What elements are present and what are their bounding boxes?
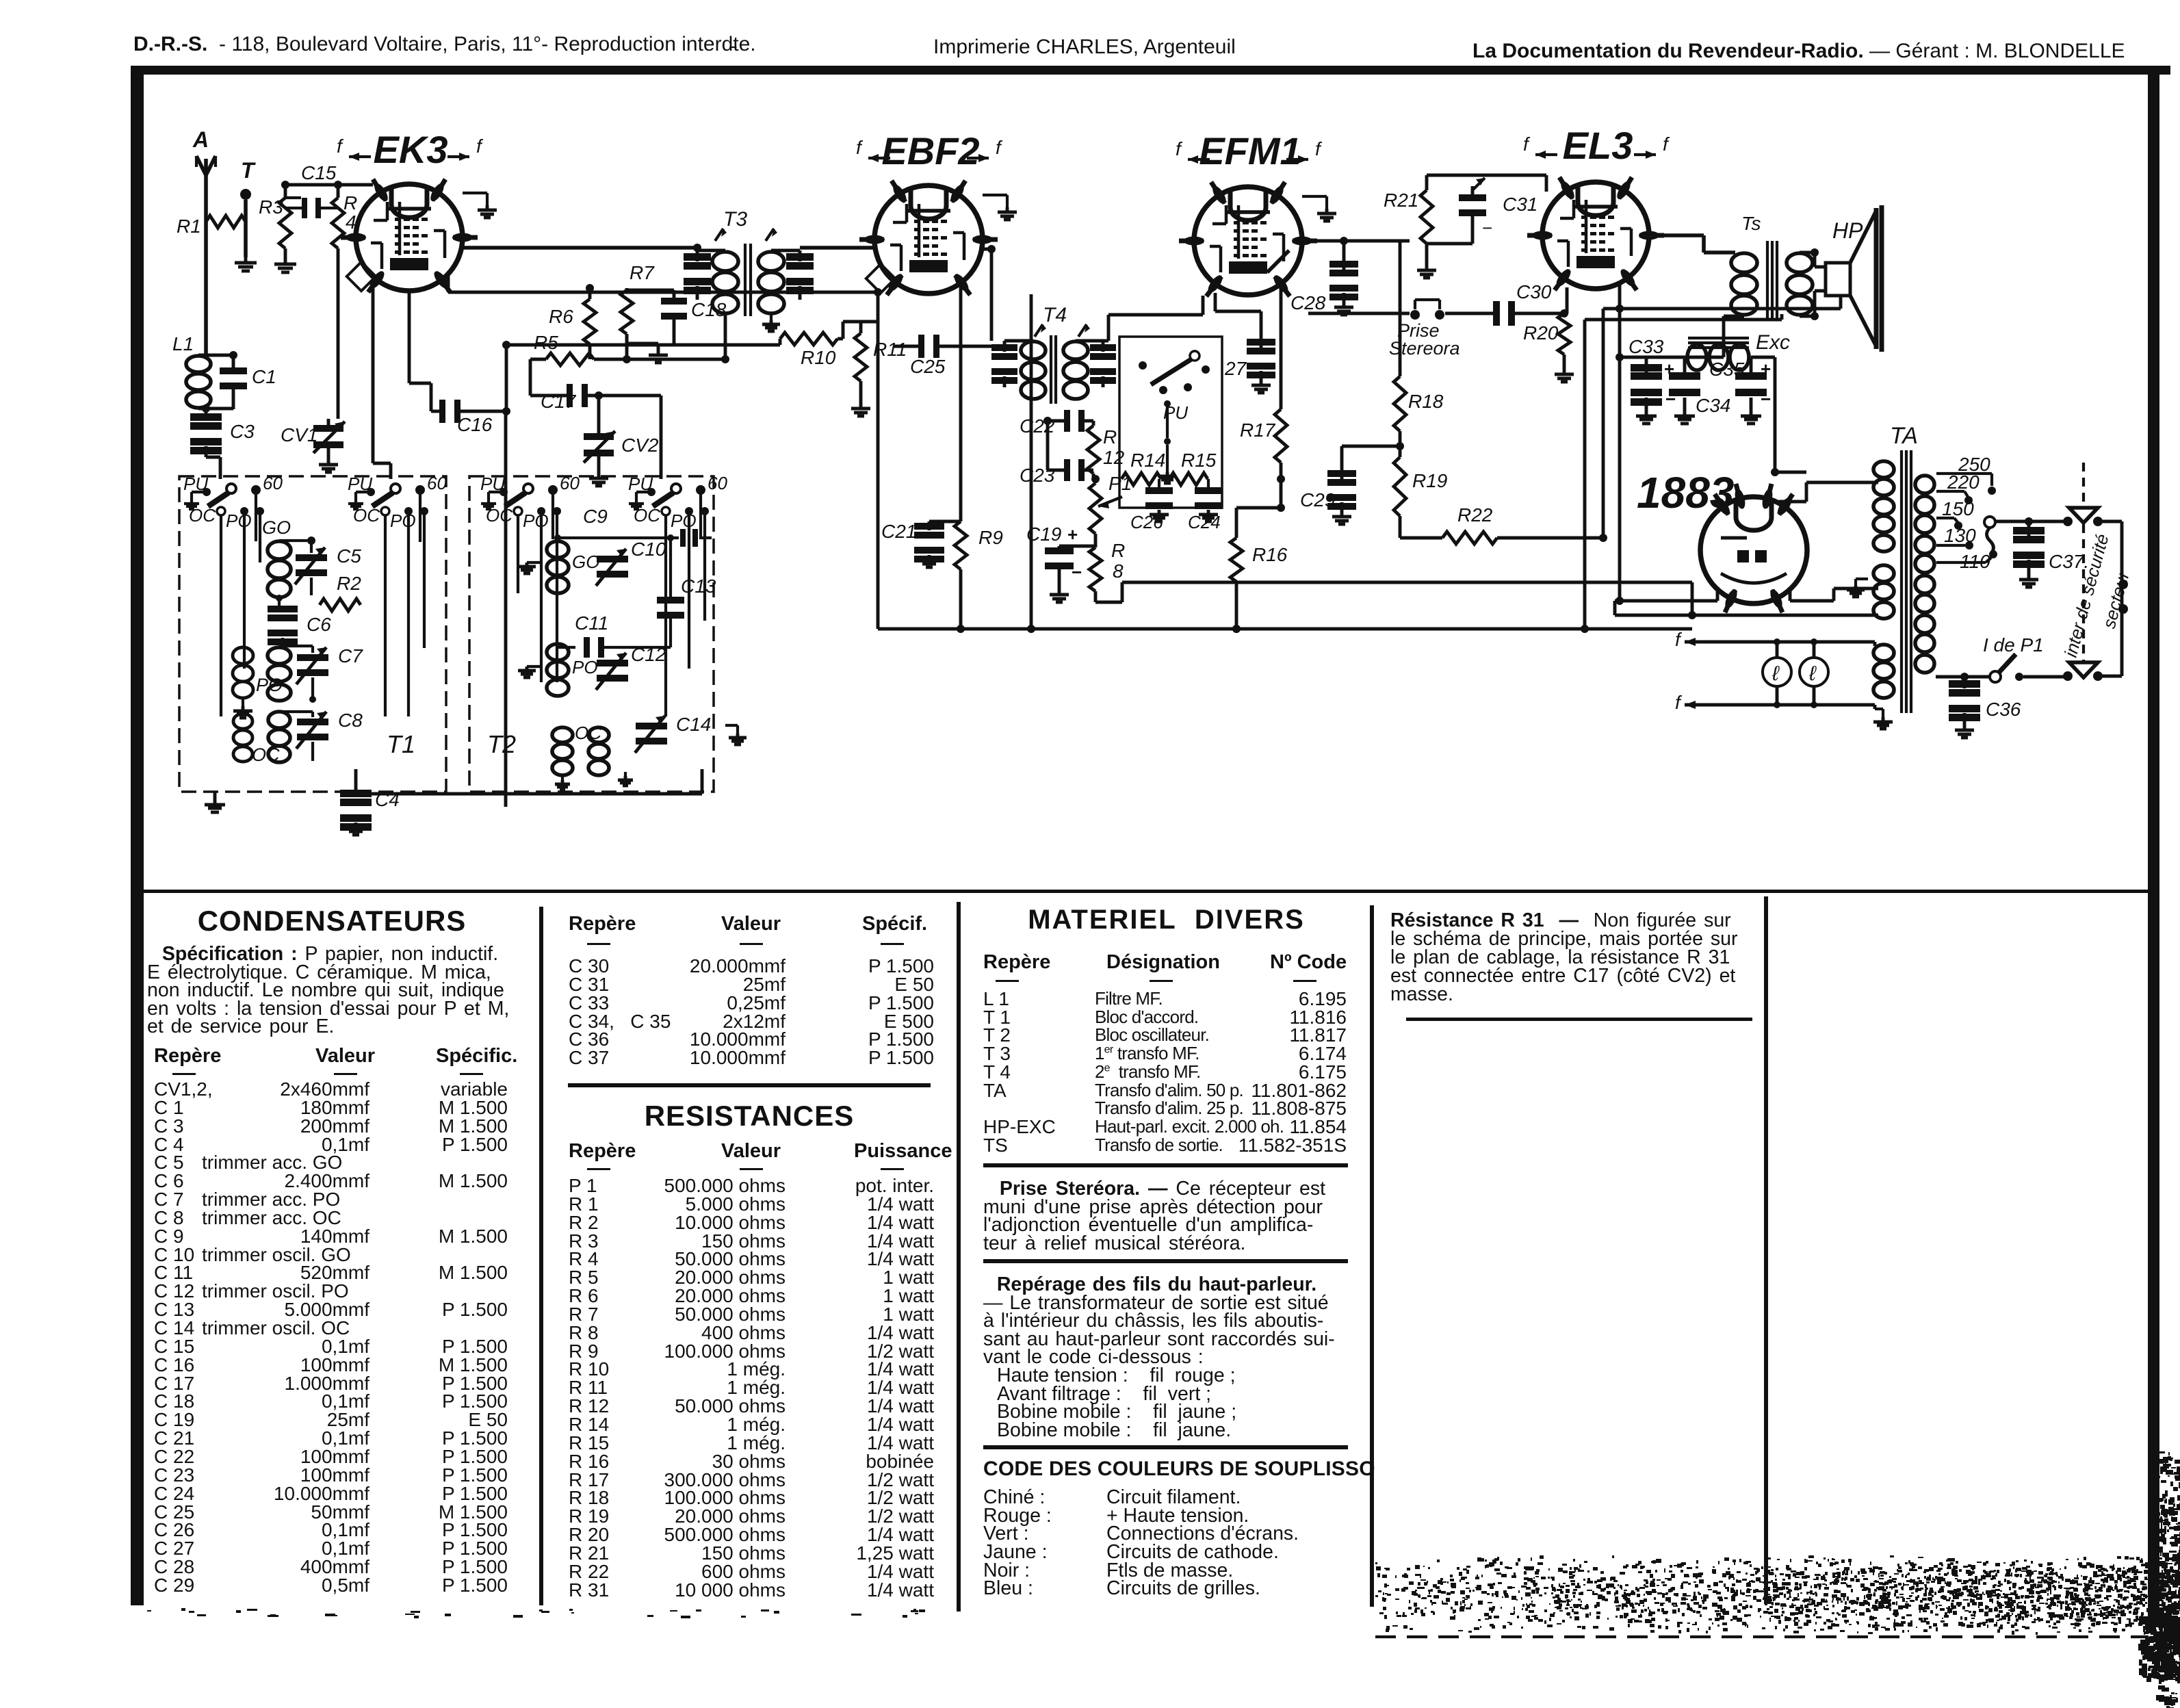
capacitor C29: [1340, 446, 1344, 479]
svg-text:C12: C12: [631, 644, 666, 665]
ground bus: [878, 627, 1692, 631]
capacitor C22: [1064, 410, 1070, 432]
svg-text:f: f: [1663, 133, 1670, 155]
fuse lower: [2063, 671, 2073, 681]
svg-text:f: f: [1523, 133, 1531, 155]
svg-text:f: f: [996, 137, 1003, 158]
capacitor C27: [1214, 293, 1217, 311]
resistor R15: [1169, 473, 1208, 485]
svg-text:T4: T4: [1043, 304, 1067, 326]
TA primary winding: [1873, 461, 1894, 478]
svg-text:R3: R3: [259, 196, 283, 218]
svg-text:T: T: [241, 158, 256, 183]
svg-text:C36: C36: [1986, 699, 2021, 720]
divider col2/col3: [957, 902, 961, 1612]
svg-text:f: f: [337, 135, 344, 157]
antenna A: [204, 159, 208, 175]
variable capacitor CV2: [584, 433, 614, 440]
svg-text:CV2: CV2: [621, 435, 659, 456]
capacitor C3: [190, 422, 222, 430]
resistor R12: [1087, 426, 1100, 474]
wire C4 bus: [354, 805, 357, 808]
capacitor C25: [918, 335, 924, 358]
svg-text:−: −: [1665, 389, 1676, 409]
wire EK3 cathode to T1-b switch: [372, 282, 375, 463]
frame right bar: [2148, 68, 2159, 1626]
svg-text:secteur: secteur: [2099, 568, 2133, 630]
svg-text:60: 60: [708, 473, 727, 493]
resistor R5: [546, 353, 594, 365]
svg-text:PO: PO: [256, 675, 283, 695]
wire CV2 node down into T2: [619, 394, 661, 398]
svg-text:C9: C9: [583, 506, 608, 527]
svg-text:T3: T3: [723, 208, 747, 231]
ground top-right of EK3: [463, 192, 487, 194]
svg-text:R: R: [1111, 540, 1125, 561]
svg-text:R2: R2: [337, 573, 361, 594]
svg-text:L1: L1: [172, 333, 194, 354]
wire: antenna lead down to L1: [204, 175, 208, 355]
capacitor C33: [1645, 357, 1648, 373]
svg-text:EL3: EL3: [1563, 124, 1633, 167]
ground T3 right coil: [770, 314, 773, 320]
divider col4/col5: [1764, 896, 1768, 1604]
wire R3/R4 tops to EK3 grid: [284, 185, 287, 198]
tube EK3: [356, 184, 463, 291]
svg-text:HP: HP: [1832, 218, 1863, 243]
svg-text:R21: R21: [1384, 190, 1418, 211]
svg-text:I de P1: I de P1: [1983, 634, 2044, 656]
pilot lamp 2: [1800, 658, 1828, 686]
svg-text:R7: R7: [630, 262, 655, 283]
svg-text:Exc: Exc: [1756, 331, 1790, 354]
svg-text:+: +: [1761, 359, 1771, 379]
wire T3 secondary bottom down: [724, 314, 727, 359]
svg-text:60: 60: [560, 473, 580, 493]
svg-text:Ts: Ts: [1741, 213, 1761, 234]
svg-text:1883: 1883: [1637, 468, 1734, 517]
svg-text:EBF2: EBF2: [881, 129, 979, 172]
svg-text:OC: OC: [189, 505, 216, 526]
svg-text:R6: R6: [549, 306, 573, 327]
svg-text:C35: C35: [1709, 359, 1745, 380]
diamond electrode EBF2: [866, 264, 895, 293]
svg-text:+: +: [1067, 524, 1078, 545]
TA heater winding: [1873, 645, 1894, 661]
trimmer C10: [597, 556, 628, 562]
switch T1-b: [391, 484, 400, 493]
resistor R17: [1275, 409, 1287, 463]
magic eye sector EFM1: [1267, 250, 1289, 272]
diamond electrode EK3: [347, 262, 376, 291]
pickup box PU: [1119, 337, 1222, 508]
variable capacitor CV1: [313, 425, 343, 432]
bottom dashed line right columns: [1375, 1635, 2149, 1638]
svg-text:PU: PU: [480, 474, 505, 494]
svg-text:R5: R5: [534, 332, 558, 353]
pilot lamp 1: [1763, 658, 1791, 686]
svg-text:C8: C8: [338, 710, 363, 731]
capacitor C1: [220, 367, 247, 374]
svg-text:f: f: [856, 137, 864, 158]
wire fuse right side: [2098, 520, 2122, 523]
svg-text:EK3: EK3: [374, 128, 448, 171]
B+ feed wire lower: [1585, 318, 1782, 322]
svg-text:+: +: [1664, 359, 1674, 379]
svg-text:f: f: [1675, 629, 1683, 650]
wire EBF2 anode to T4: [979, 248, 991, 251]
ground under T: [244, 257, 248, 263]
resistor R22: [1442, 532, 1497, 544]
resistor R2: [320, 599, 361, 611]
ground GO T2: [527, 561, 541, 564]
wire Exc right down to TA: [1751, 356, 1775, 359]
wire R4 bottom down to CV1: [337, 248, 340, 419]
svg-text:C33: C33: [1628, 336, 1664, 357]
wires R5/R6/R7 node: [594, 358, 725, 361]
svg-text:R: R: [1103, 426, 1117, 448]
svg-text:GO: GO: [262, 517, 291, 538]
ground under R11: [859, 381, 863, 404]
switch T2-b: [671, 484, 681, 493]
svg-text:27: 27: [1224, 358, 1247, 379]
capacitor C23: [1064, 459, 1070, 481]
coil PO T1 primary: [233, 647, 253, 664]
svg-text:C6: C6: [307, 614, 331, 635]
svg-text:220: 220: [1947, 471, 1980, 493]
svg-text:C25: C25: [910, 356, 946, 377]
separator schematic/tables: [144, 890, 2148, 893]
ground top-right of EFM1: [1302, 195, 1327, 198]
electrolytic C35: [1750, 357, 1753, 373]
svg-text:C11: C11: [575, 612, 608, 634]
svg-text:C1: C1: [252, 366, 276, 387]
svg-text:OC: OC: [486, 505, 512, 526]
capacitor C16: [439, 400, 445, 423]
svg-text:−: −: [1482, 218, 1492, 238]
svg-text:PU: PU: [348, 474, 372, 494]
ground T1 bottom-left: [213, 792, 217, 799]
svg-text:Stereora: Stereora: [1389, 338, 1460, 359]
svg-text:OC: OC: [252, 745, 280, 765]
selector rotary contact: [1984, 517, 1995, 528]
svg-text:R15: R15: [1181, 450, 1217, 471]
svg-text:8: 8: [1113, 560, 1124, 582]
wire L1 bottom join: [198, 407, 233, 411]
divider col1/col2: [539, 907, 543, 1605]
resistor R3: [279, 198, 291, 248]
wire R10-R11 node: [838, 337, 843, 341]
ground TA center tap: [1856, 578, 1868, 580]
resistor R19: [1394, 457, 1406, 516]
coil PO T1 secondary: [268, 647, 291, 664]
wires Ts to HP: [1800, 251, 1815, 255]
svg-text:C15: C15: [301, 162, 337, 183]
svg-text:C7: C7: [338, 645, 363, 667]
wire L1 top to C1: [205, 346, 208, 355]
svg-text:CV1: CV1: [281, 424, 317, 445]
wire EFM1 anode right: [1302, 240, 1410, 243]
resistor R7: [621, 290, 633, 334]
wire C16 left to EK3: [408, 291, 411, 383]
wire selector to fuse: [1995, 520, 2066, 523]
wire EL3 grid down: [1566, 287, 1569, 313]
dashed link fuses: [2082, 463, 2085, 506]
capacitor C15: [302, 198, 307, 218]
svg-text:OC: OC: [353, 505, 380, 526]
coil OC T2 right: [588, 727, 609, 742]
svg-text:f: f: [1675, 692, 1683, 713]
svg-text:f: f: [1176, 138, 1183, 159]
grounds T2 bottom: [561, 776, 564, 780]
svg-text:R22: R22: [1457, 504, 1493, 526]
resistor R18: [1394, 376, 1406, 431]
svg-text:R20: R20: [1523, 322, 1559, 344]
wire R8 bottom to bus: [1095, 601, 1122, 604]
electrolytic C31: [1459, 194, 1486, 201]
wire EFM1 to prise: [1308, 312, 1410, 315]
svg-text:A: A: [192, 127, 209, 152]
capacitor C13: [657, 597, 684, 604]
frame top bar: [133, 66, 2170, 75]
svg-text:150: 150: [1942, 498, 1974, 519]
capacitor C36: [1963, 677, 1967, 688]
svg-text:C13: C13: [681, 575, 716, 597]
ground top-right of EBF2: [983, 194, 1007, 196]
resistor R9: [955, 521, 967, 569]
svg-text:C5: C5: [337, 545, 361, 567]
svg-text:C28: C28: [1290, 292, 1326, 313]
svg-text:C14: C14: [676, 714, 711, 735]
tube EL3: [1542, 182, 1649, 289]
svg-text:R16: R16: [1252, 544, 1288, 565]
bottom speckle noise band: [1873, 1581, 1877, 1582]
capacitor C21: [928, 521, 931, 530]
wires T3: [696, 250, 699, 261]
svg-text:ℓ: ℓ: [1772, 662, 1780, 685]
svg-text:C19: C19: [1026, 523, 1061, 545]
capacitor C11: [584, 637, 590, 658]
wire EBF2 cathode down: [1030, 294, 1033, 629]
electrolytic C19: [1045, 547, 1074, 554]
rectifier tube 1883: [1700, 497, 1807, 604]
wire T4 right to EFM1 grid: [1103, 339, 1108, 343]
frame left bar: [131, 66, 144, 1605]
dashed box T1: [179, 476, 446, 792]
node C30-R20: [1560, 309, 1568, 318]
svg-text:C30: C30: [1516, 281, 1552, 302]
ground under R3: [284, 248, 287, 259]
svg-text:R1: R1: [177, 216, 201, 237]
wire EL3 cathode down to 1883 loop: [1618, 284, 1622, 601]
capacitor C6: [268, 614, 298, 621]
resistor R1: [206, 216, 246, 228]
capacitor C30: [1493, 301, 1500, 326]
svg-text:T1: T1: [387, 730, 415, 758]
svg-text:OC: OC: [634, 505, 660, 526]
ground PO primary: [242, 699, 244, 706]
header middle: [933, 36, 1236, 59]
potentiometer P1: [1089, 483, 1102, 534]
tube EBF2: [874, 185, 983, 294]
wires T4: [1003, 341, 1007, 352]
coil OC T1 primary: [233, 714, 252, 729]
resistor R20: [1558, 313, 1570, 354]
coil OC T1 secondary: [268, 712, 290, 728]
coil OC T2 left: [552, 727, 573, 742]
coil GO T2: [547, 541, 569, 558]
resistor R4: [332, 198, 344, 248]
svg-text:C18: C18: [691, 299, 727, 320]
svg-text:C29: C29: [1300, 489, 1335, 510]
wire 1883 cathode loop: [1716, 590, 1720, 601]
capacitor C37: [2027, 521, 2031, 539]
B+ feed wire upper: [1603, 307, 1841, 311]
svg-text:C31: C31: [1503, 194, 1537, 215]
capacitor C24: [1207, 479, 1210, 487]
svg-text:R9: R9: [978, 527, 1003, 548]
svg-text:12: 12: [1103, 447, 1125, 468]
switch T1-a: [226, 484, 236, 493]
svg-text:PU: PU: [628, 474, 653, 494]
svg-text:R14: R14: [1130, 450, 1165, 471]
wire EK3 anode to T3 and EBF2 grid: [463, 246, 697, 250]
wire 1883 plates to TA primary top: [1779, 500, 1806, 504]
wire C3 down to T1 box: [205, 446, 208, 457]
header left: [133, 33, 756, 56]
AVC wire to R10: [505, 345, 508, 411]
trimmer C14: [636, 723, 667, 729]
wire Ts primary bottom return: [1724, 315, 1744, 318]
resistor R11: [855, 333, 867, 381]
svg-text:PU: PU: [183, 474, 208, 494]
svg-text:EFM1: EFM1: [1199, 129, 1301, 172]
ground heater right: [1875, 708, 1883, 710]
resistor R6: [584, 299, 596, 344]
switch T2-a: [523, 484, 533, 493]
svg-text:R19: R19: [1412, 470, 1447, 491]
svg-text:PO: PO: [390, 510, 416, 531]
divider col3/col4: [1370, 905, 1374, 1607]
ground under R7/C18: [625, 334, 629, 344]
capacitor C26: [1158, 479, 1160, 487]
wire T to ground: [244, 200, 248, 257]
svg-text:60: 60: [263, 473, 283, 493]
svg-text:PO: PO: [523, 510, 549, 531]
prise stereora: [1410, 310, 1420, 320]
svg-text:R: R: [343, 192, 357, 213]
trimmer C8: [297, 719, 328, 725]
svg-text:PO: PO: [572, 657, 598, 677]
svg-text:C3: C3: [230, 421, 255, 442]
svg-text:GO: GO: [572, 552, 599, 572]
vertical bus from EK3 area down: [504, 411, 508, 807]
svg-text:ℓ: ℓ: [1808, 662, 1817, 685]
wires R21/C31: [1425, 175, 1429, 190]
resistor R21: [1420, 190, 1433, 244]
ground PO T2: [527, 665, 541, 668]
fuse upper: [2063, 517, 2073, 526]
ground right of T2: [725, 724, 738, 727]
svg-text:PO: PO: [226, 510, 252, 531]
field coil Exc: [1688, 337, 1749, 339]
svg-text:PO: PO: [671, 510, 697, 531]
trimmer C12: [597, 660, 628, 667]
node R1-T: [244, 220, 247, 223]
svg-text:C21: C21: [881, 521, 916, 542]
wire EL3 anode to Ts: [1649, 233, 1704, 237]
resistor R10: [780, 333, 838, 345]
electrolytic C34: [1683, 357, 1687, 373]
tube EFM1: [1194, 187, 1302, 295]
capacitor C18: [661, 298, 687, 305]
svg-text:C10: C10: [631, 539, 666, 560]
svg-text:R10: R10: [801, 347, 836, 368]
wire EK3 lower-right to AVC bus: [447, 275, 450, 292]
header right: [1472, 40, 2125, 63]
dashed box T2: [469, 476, 714, 792]
svg-text:C23: C23: [1020, 465, 1055, 486]
capacitor C28: [1342, 241, 1346, 270]
trimmer C5: [296, 554, 327, 561]
svg-text:TA: TA: [1890, 423, 1918, 449]
capacitor C17: [567, 384, 573, 407]
svg-text:C16: C16: [457, 414, 493, 435]
resistor R8: [1089, 547, 1102, 591]
svg-text:−: −: [1761, 389, 1771, 409]
trimmer C7: [297, 654, 328, 661]
svg-text:C34: C34: [1696, 395, 1730, 416]
svg-text:60: 60: [427, 473, 447, 493]
terminal T: [240, 189, 251, 200]
resistor R14: [1121, 473, 1161, 485]
svg-text:f: f: [476, 135, 484, 157]
junction dots: [502, 407, 510, 415]
svg-text:f: f: [1315, 138, 1323, 159]
coil L1: [186, 356, 211, 372]
coil PO T2: [547, 644, 569, 660]
svg-text:R18: R18: [1408, 391, 1444, 412]
TA primary lower: [1873, 565, 1894, 582]
TA secondary winding: [1915, 476, 1934, 493]
capacitor C4: [354, 769, 358, 797]
svg-text:R17: R17: [1240, 419, 1276, 441]
resistor R16: [1230, 538, 1243, 582]
svg-text:−: −: [1072, 562, 1082, 582]
svg-text:T2: T2: [487, 730, 516, 758]
wire C16 right to T4/CV2 node: [459, 410, 506, 413]
